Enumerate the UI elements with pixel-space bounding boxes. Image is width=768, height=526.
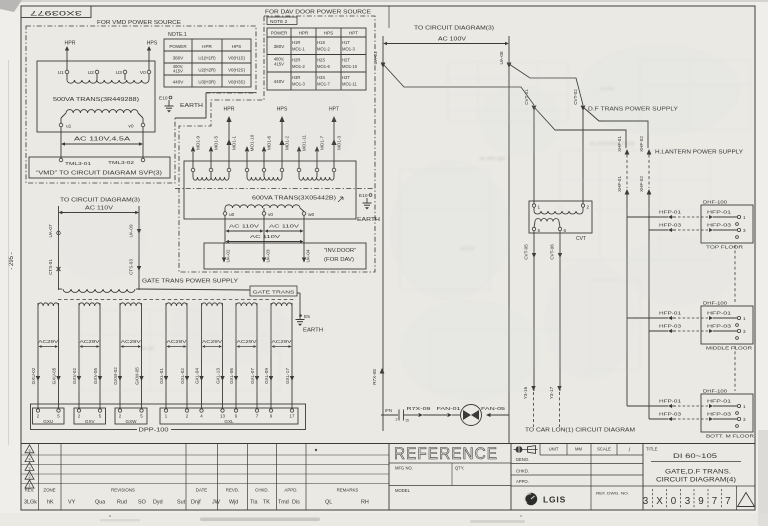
- dimension AC29V winding 6: [237, 339, 258, 348]
- wire HFP-01 middle floor branch: [627, 317, 668, 319]
- dimension AC29V winding 5: [202, 339, 223, 348]
- svg-text:GATE TRANS POWER SUPPLY: GATE TRANS POWER SUPPLY: [142, 279, 239, 285]
- svg-text:APPO.: APPO.: [516, 479, 529, 484]
- svg-text:CIRCUIT DIAGRAM(4): CIRCUIT DIAGRAM(4): [656, 478, 736, 484]
- svg-text:15: 15: [405, 419, 409, 423]
- svg-text:Tmd: Tmd: [278, 500, 289, 506]
- svg-text:CVT-05: CVT-05: [524, 244, 529, 260]
- svg-text:H3R: H3R: [292, 75, 300, 80]
- svg-text:H2S: H2S: [317, 58, 325, 63]
- svg-text:415V: 415V: [274, 62, 284, 67]
- svg-text:13: 13: [220, 414, 225, 419]
- label GATE TRANS box: [250, 286, 300, 319]
- svg-text:2: 2: [28, 475, 30, 479]
- svg-text:H1S: H1S: [317, 40, 325, 45]
- title block middle grid: [511, 444, 643, 511]
- wire MO1-9 (600VA primary pin): [191, 136, 201, 172]
- svg-text:GXW-05: GXW-05: [135, 367, 140, 385]
- svg-text:XHF-02: XHF-02: [639, 136, 644, 152]
- svg-text:V0(H2S): V0(H2S): [228, 68, 245, 73]
- value label 600VA TRANS: [252, 196, 343, 203]
- svg-text:GATE,D.F TRANS.: GATE,D.F TRANS.: [665, 470, 731, 476]
- svg-text:GXW: GXW: [126, 419, 138, 424]
- gate trans core dashed line: [58, 299, 296, 301]
- svg-text:REFERENCE: REFERENCE: [394, 445, 498, 463]
- svg-text:u1: u1: [66, 124, 72, 130]
- note table NOTE 2: [267, 28, 366, 90]
- dashed riser between top and middle floor: [734, 245, 736, 303]
- svg-text:415V: 415V: [173, 69, 183, 74]
- wire MO1-7 (600VA primary pin): [315, 136, 325, 172]
- svg-text:AC29V: AC29V: [121, 339, 142, 345]
- wire GXL-01: [159, 306, 168, 408]
- svg-text:Y3-16: Y3-16: [523, 386, 528, 399]
- gate trans secondary winding 6: [236, 303, 257, 306]
- reference block cells: [389, 463, 511, 493]
- connector DPP-100 outer box: [31, 404, 306, 434]
- svg-text:JW: JW: [212, 500, 221, 506]
- svg-text:IFN: IFN: [385, 408, 392, 413]
- wire HFP-01 top floor branch: [627, 216, 668, 218]
- wire UA-07 / CTS-01: [48, 213, 61, 291]
- svg-text:HFP-01: HFP-01: [659, 399, 681, 405]
- wire HFP-01 bottom floor branch: [627, 405, 668, 407]
- svg-text:HFP-01: HFP-01: [707, 399, 731, 405]
- LGIS logo: [525, 493, 566, 505]
- terminal block TML3: [29, 157, 170, 178]
- svg-text:3: 3: [28, 466, 30, 470]
- wire CVT-01 (to CVT pin 1): [524, 89, 536, 204]
- note label NOTE 2 box: [267, 17, 297, 25]
- svg-text:V0(H3S): V0(H3S): [228, 80, 245, 85]
- third angle projection symbol: [514, 446, 538, 454]
- svg-text:600VA TRANS(3X05442B): 600VA TRANS(3X05442B): [252, 196, 336, 202]
- svg-text:TML3-02: TML3-02: [108, 160, 134, 166]
- svg-text:5: 5: [28, 449, 30, 453]
- wire UA-01 / R7X-08 vertical: [372, 44, 385, 432]
- svg-text:GATE TRANS: GATE TRANS: [253, 290, 295, 296]
- fan motor FAN: [461, 405, 482, 426]
- svg-text:LGIS: LGIS: [543, 495, 566, 505]
- svg-text:U3: U3: [116, 70, 122, 76]
- svg-text:AC 110V: AC 110V: [229, 224, 260, 230]
- wire UA-08 to CVT-02: [509, 64, 583, 105]
- svg-text:pu yne jsdme awpej: pu yne jsdme awpej: [590, 141, 634, 147]
- svg-text:v0: v0: [268, 212, 273, 218]
- wire MO1-5 (600VA primary pin): [209, 136, 219, 172]
- dimension AC 110V (u0-w0): [226, 234, 304, 243]
- wire CVT-06 / Y3-17: [549, 231, 562, 427]
- label FOR VMD POWER SOURCE: [97, 20, 181, 26]
- svg-text:U2: U2: [88, 70, 94, 76]
- svg-text:U2(H2R): U2(H2R): [198, 68, 216, 73]
- ref dwg no cell: [596, 492, 629, 496]
- svg-text:HFP-03: HFP-03: [707, 223, 731, 229]
- connector box INV.DOOR (FOR DAV): [204, 243, 366, 269]
- top center registration mark: [388, 6, 390, 28]
- svg-text:3: 3: [743, 329, 746, 334]
- svg-text:AC29V: AC29V: [80, 339, 101, 345]
- connector DHF-100 MIDDLE FLOOR: [659, 301, 753, 352]
- svg-text:GXL-02: GXL-02: [180, 368, 185, 384]
- dimension AC29V winding 4: [167, 339, 188, 348]
- 600VA secondary winding with u0 v0 w0 terminals: [223, 205, 314, 218]
- svg-text:440V: 440V: [173, 80, 185, 85]
- wire GXL-17: [285, 306, 294, 408]
- wire GXW-05: [135, 306, 144, 408]
- svg-text:380V: 380V: [274, 44, 286, 49]
- wire UA-03: [262, 215, 271, 262]
- svg-text:XHF-01: XHF-01: [617, 176, 622, 192]
- svg-text:POWER: POWER: [169, 44, 187, 49]
- svg-text:v0: v0: [128, 124, 133, 130]
- svg-text:3X03977: 3X03977: [29, 9, 82, 16]
- svg-text:MO1-6: MO1-6: [317, 64, 330, 69]
- wire UA-04: [302, 215, 311, 262]
- wire UA-02: [222, 215, 231, 262]
- transformer CVT: [529, 201, 592, 242]
- svg-text:GXV-02: GXV-02: [72, 368, 77, 385]
- svg-text:HFP-03: HFP-03: [659, 324, 681, 330]
- svg-text:U1: U1: [58, 70, 64, 76]
- svg-text:TITLE: TITLE: [646, 447, 658, 452]
- svg-text:UA-04: UA-04: [306, 249, 311, 262]
- svg-text:2: 2: [396, 418, 398, 422]
- svg-text:440V: 440V: [274, 79, 286, 84]
- label H.LANTERN POWER SUPPLY: [655, 150, 744, 156]
- svg-text:TO CAR LON(1) CIRCUIT DIAGRAM: TO CAR LON(1) CIRCUIT DIAGRAM: [525, 428, 635, 434]
- svg-text:DATE: DATE: [196, 488, 207, 493]
- svg-text:R7X-09: R7X-09: [407, 406, 431, 412]
- svg-text:MO1-2: MO1-2: [292, 64, 305, 69]
- svg-text:GXW-02: GXW-02: [113, 367, 118, 385]
- svg-text:CVT-02: CVT-02: [573, 89, 578, 105]
- dimension AC 110V (v0-w0): [265, 224, 304, 233]
- drawing number box (top-left, rotated stamp 3X03977): [21, 6, 91, 18]
- value label AC 110V,4.5A with dimension arrows: [61, 137, 143, 146]
- svg-text:1: 1: [743, 215, 746, 220]
- svg-text:CHKD.: CHKD.: [516, 469, 529, 474]
- svg-text:1: 1: [538, 205, 541, 210]
- svg-text:MO1-11: MO1-11: [342, 82, 357, 87]
- wire XHF-02 vertical: [639, 136, 651, 419]
- wire HPS (VMD primary): [147, 41, 158, 71]
- wire u1 to TML3-01: [60, 127, 62, 158]
- ref dwg number 3X03977: [643, 486, 755, 510]
- svg-text:HPS: HPS: [232, 44, 241, 49]
- dimension AC29V winding 3: [121, 339, 142, 348]
- gate trans secondary winding 2: [79, 303, 100, 306]
- title block handwritten entries: [24, 500, 369, 506]
- revision marker triangles: [25, 445, 34, 488]
- svg-text:w0: w0: [308, 212, 314, 218]
- svg-text:6: 6: [564, 228, 567, 233]
- svg-text:GXU-05: GXU-05: [52, 367, 57, 384]
- wire MO1-2 (600VA primary pin): [279, 116, 289, 172]
- svg-text:GXL-06: GXL-06: [229, 368, 234, 384]
- label HPT (DAV): [329, 107, 340, 113]
- connector IFN: [381, 408, 418, 423]
- svg-text:Y3-17: Y3-17: [549, 386, 554, 399]
- wire GXL-04: [195, 306, 204, 408]
- svg-text:VY: VY: [68, 500, 76, 506]
- label HPR (DAV): [224, 107, 235, 113]
- ground E10 (DAV earth): [357, 193, 380, 223]
- title block grid left: [21, 444, 755, 511]
- wire HPR (VMD primary): [65, 41, 76, 71]
- gate trans secondary winding 3: [120, 303, 142, 306]
- wire MO1-6 (600VA primary pin): [262, 136, 272, 172]
- svg-text:“INV.DOOR”: “INV.DOOR”: [324, 248, 356, 254]
- svg-text:MO1-10: MO1-10: [250, 134, 255, 151]
- wire UA-09 / CTS-03: [129, 213, 142, 291]
- wire MO1-3 (600VA primary pin): [331, 116, 341, 172]
- svg-text:U3(H3R): U3(H3R): [198, 80, 216, 85]
- DAV section inner dash-dot divider: [175, 188, 375, 190]
- svg-text:SCALE: SCALE: [597, 447, 611, 452]
- svg-text:REF. DWG. NO.: REF. DWG. NO.: [596, 492, 629, 496]
- svg-text:FAN-01: FAN-01: [437, 406, 461, 412]
- svg-text:3: 3: [743, 228, 746, 233]
- svg-text:Sut: Sut: [177, 500, 186, 506]
- svg-text:AC 110V,4.5A: AC 110V,4.5A: [74, 137, 131, 143]
- wire GXL-06: [229, 306, 238, 408]
- svg-text:5: 5: [538, 228, 541, 233]
- svg-text:U1(H1R): U1(H1R): [198, 56, 216, 61]
- svg-text:BOTT. M FLOOR: BOTT. M FLOOR: [706, 434, 755, 440]
- svg-text:X: X: [656, 496, 663, 507]
- svg-text:GXL-04: GXL-04: [195, 368, 200, 384]
- svg-text:HFP-01: HFP-01: [707, 210, 731, 216]
- svg-text:HPR: HPR: [224, 107, 235, 113]
- transformer 600VA box: [184, 161, 356, 219]
- left margin sheet number -295-: [9, 252, 15, 269]
- svg-text:E10: E10: [359, 193, 368, 199]
- svg-text:17: 17: [290, 414, 295, 419]
- svg-text:MO1-2: MO1-2: [317, 47, 330, 52]
- svg-text:TML3-01: TML3-01: [65, 161, 91, 167]
- connector GXL: [160, 408, 298, 424]
- svg-text:9: 9: [698, 496, 703, 507]
- label GATE TRANS POWER SUPPLY: [142, 279, 239, 285]
- svg-text:3: 3: [643, 496, 649, 507]
- wire HFP-03 bottom floor branch: [649, 418, 668, 420]
- svg-text:DPP-100: DPP-100: [139, 428, 169, 434]
- svg-text:HFP-03: HFP-03: [659, 223, 681, 229]
- svg-text:AC 100V: AC 100V: [438, 37, 467, 43]
- svg-text:AC 110V: AC 110V: [250, 234, 281, 240]
- svg-text:EARTH: EARTH: [357, 217, 380, 223]
- svg-text:HFP-03: HFP-03: [707, 324, 731, 330]
- label D.F TRANS POWER SUPPLY: [588, 107, 679, 113]
- svg-text:GXL-09: GXL-09: [264, 368, 269, 384]
- wire CVT-01 to XHF-01 feed: [534, 107, 626, 148]
- svg-text:REVISIONS: REVISIONS: [111, 488, 135, 493]
- svg-text:MIDDLE FLOOR: MIDDLE FLOOR: [706, 346, 753, 352]
- svg-text:3LGk: 3LGk: [24, 500, 37, 506]
- svg-text:hK: hK: [47, 500, 54, 506]
- svg-text:UNIT: UNIT: [549, 447, 559, 452]
- svg-text:Wjd: Wjd: [229, 500, 238, 506]
- wire XHF-01 vertical: [617, 136, 629, 406]
- svg-text:7: 7: [712, 496, 717, 507]
- svg-text:u0: u0: [229, 212, 235, 218]
- svg-text:E5: E5: [304, 314, 310, 320]
- svg-text:QL: QL: [325, 500, 332, 506]
- gate trans secondary winding 5: [202, 303, 223, 306]
- wire UA-08 vertical: [499, 44, 511, 444]
- wire GXV-02: [72, 306, 81, 408]
- svg-text:1: 1: [743, 404, 746, 409]
- svg-text:HFP-03: HFP-03: [659, 412, 681, 418]
- wire GXU-05: [52, 306, 61, 408]
- svg-text:- 295 -: - 295 -: [9, 252, 15, 269]
- dimension AC29V winding 2: [80, 339, 101, 348]
- svg-text:FAN-05: FAN-05: [481, 406, 505, 412]
- svg-text:REVD.: REVD.: [226, 488, 239, 493]
- svg-text:UA-08: UA-08: [499, 51, 504, 64]
- wire MO1-11 (600VA primary pin): [297, 134, 307, 171]
- svg-text:RH: RH: [361, 500, 369, 506]
- svg-text:Qua: Qua: [95, 500, 105, 506]
- svg-text:HPS: HPS: [147, 41, 158, 47]
- title cell: [643, 447, 755, 487]
- svg-text:QTY.: QTY.: [455, 466, 464, 471]
- dashed riser between middle and bottom floor: [734, 346, 736, 391]
- svg-text:V0(H1S): V0(H1S): [228, 56, 245, 61]
- svg-text:500VA TRANS(3R449288): 500VA TRANS(3R449288): [53, 97, 139, 103]
- wire MO1-10 (600VA primary pin): [245, 134, 255, 172]
- svg-text:HFP-01: HFP-01: [659, 311, 681, 317]
- svg-text:CTS-01: CTS-01: [48, 259, 53, 275]
- svg-text:UA-01: UA-01: [373, 51, 378, 64]
- svg-text:ZONE: ZONE: [43, 488, 55, 493]
- wire UA-01 to CVT-01: [383, 64, 534, 105]
- svg-text:FOR VMD POWER SOURCE: FOR VMD POWER SOURCE: [97, 20, 181, 26]
- svg-text:MODEL: MODEL: [395, 488, 411, 493]
- svg-text:CVT: CVT: [576, 236, 586, 242]
- note table NOTE.1: [164, 32, 251, 87]
- ground E5 (gate trans earth): [296, 314, 324, 334]
- label TO CIRCUIT DIAGRAM(3) top: [414, 26, 494, 32]
- VMD section dash-dot boundary: [26, 26, 256, 183]
- title block headers: [25, 488, 359, 493]
- svg-text:3: 3: [685, 496, 691, 507]
- gate trans secondary winding 7: [271, 303, 292, 306]
- svg-text:MM: MM: [575, 447, 582, 452]
- connector GXW: [115, 408, 147, 424]
- svg-text:MO1-5: MO1-5: [214, 136, 219, 150]
- svg-text:jfw ow: jfw ow: [139, 346, 154, 352]
- svg-text:REV.: REV.: [25, 488, 35, 493]
- wire GXL-02: [180, 306, 189, 408]
- wire GXU-02: [31, 306, 40, 408]
- svg-text:HPS: HPS: [324, 31, 333, 36]
- svg-text:EARTH: EARTH: [303, 328, 323, 334]
- left margin paper crease: [8, 60, 10, 445]
- wire gate winding to GATE TRANS box: [139, 289, 250, 290]
- svg-text:AC 110V: AC 110V: [269, 224, 300, 230]
- svg-text:TO CIRCUIT DIAGRAM(3): TO CIRCUIT DIAGRAM(3): [414, 26, 494, 32]
- svg-text:E10: E10: [159, 96, 168, 102]
- svg-text:GXU-02: GXU-02: [31, 367, 36, 384]
- svg-text:NOTE 2: NOTE 2: [270, 19, 288, 25]
- svg-text:GXL-07: GXL-07: [250, 368, 255, 384]
- svg-text:Tla: Tla: [250, 500, 258, 506]
- svg-text:AC29V: AC29V: [38, 339, 59, 345]
- svg-text:SO: SO: [138, 500, 146, 506]
- wire HFP-03 top floor branch: [649, 229, 668, 231]
- REFERENCE stamp: [394, 445, 498, 463]
- dimension AC 110V left: [59, 206, 140, 215]
- unit scale cells: [516, 447, 631, 485]
- svg-text:MO1-6: MO1-6: [267, 136, 272, 150]
- svg-text:EARTH: EARTH: [180, 103, 203, 109]
- dimension AC 110V (u0-v0): [226, 224, 264, 233]
- wire GXL-09: [264, 306, 273, 408]
- svg-text:H1R: H1R: [292, 40, 300, 45]
- connector GXU: [33, 408, 65, 424]
- svg-text:NOTE.1: NOTE.1: [168, 32, 187, 38]
- svg-text:XHF-02: XHF-02: [639, 176, 644, 192]
- svg-text:GXL-13: GXL-13: [216, 368, 221, 384]
- svg-text:HFP-01: HFP-01: [707, 311, 731, 317]
- svg-text:UA-02: UA-02: [226, 249, 231, 262]
- svg-text:R7X-08: R7X-08: [372, 369, 377, 385]
- svg-text:380V: 380V: [173, 56, 185, 61]
- svg-text:CVT-06: CVT-06: [550, 244, 555, 260]
- svg-text:GXU: GXU: [43, 419, 53, 424]
- svg-text:REMARKS: REMARKS: [337, 488, 359, 493]
- svg-text:MO1-1: MO1-1: [232, 136, 237, 150]
- svg-text:7: 7: [725, 496, 730, 507]
- svg-text:TK: TK: [263, 500, 270, 506]
- svg-text:GXL: GXL: [224, 419, 234, 424]
- wire GXW-02: [113, 306, 122, 408]
- wire CVT-05 / Y3-16: [523, 231, 536, 427]
- svg-text:APPD.: APPD.: [284, 488, 297, 493]
- svg-text:H2T: H2T: [342, 58, 350, 63]
- svg-text:MO1-9: MO1-9: [196, 136, 201, 150]
- 600VA primary windings: [193, 172, 334, 180]
- svg-text:HPR: HPR: [65, 41, 76, 47]
- gate trans secondary winding 4: [166, 303, 187, 306]
- svg-text:MO1-10: MO1-10: [342, 64, 358, 69]
- svg-text:1: 1: [743, 316, 746, 321]
- dimension AC 100V: [383, 36, 509, 45]
- svg-text:(FOR DAV): (FOR DAV): [324, 257, 354, 263]
- wire v0 to TML3-02: [142, 127, 144, 158]
- svg-text:Dyd: Dyd: [153, 500, 163, 506]
- svg-text:POWER: POWER: [271, 31, 288, 36]
- svg-text:GXL-01: GXL-01: [159, 368, 164, 384]
- svg-text:CHKD.: CHKD.: [255, 488, 269, 493]
- DAV section dash-dot boundary: [179, 16, 375, 272]
- svg-text:H2R: H2R: [292, 58, 300, 63]
- svg-text:GXL-17: GXL-17: [285, 368, 290, 384]
- svg-text:UA-07: UA-07: [48, 224, 53, 237]
- svg-text:Rud: Rud: [117, 500, 127, 506]
- svg-text:“VMD” TO CIRCUIT DIAGRAM SVP(3: “VMD” TO CIRCUIT DIAGRAM SVP(3): [36, 171, 162, 177]
- transformer 500VA VMD trans: [37, 61, 155, 132]
- svg-text:H1T: H1T: [342, 40, 350, 45]
- wire FAN-05: [481, 406, 509, 417]
- svg-text:MFG NO.: MFG NO.: [395, 466, 413, 471]
- svg-text:V0: V0: [140, 70, 146, 76]
- wire GXL-13: [216, 306, 225, 408]
- wire CVT-02 to XHF-02 feed: [583, 107, 648, 148]
- wire GXL-07: [250, 306, 259, 408]
